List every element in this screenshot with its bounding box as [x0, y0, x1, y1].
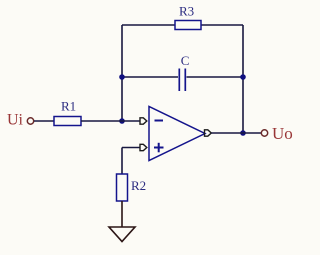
pin: output arrow: [205, 130, 212, 136]
node: junction right-cap: [240, 74, 246, 80]
svg-text:C: C: [181, 53, 190, 68]
wire: capacitor row left: [122, 76, 178, 78]
node: junction right-output: [240, 130, 246, 136]
wire: R2 to ground: [121, 201, 123, 227]
op-amp minus sign: [155, 120, 164, 122]
resistor R1: [54, 117, 81, 126]
wire: input to R1: [34, 120, 54, 122]
svg-text:R1: R1: [61, 99, 76, 114]
resistor R3: [175, 21, 201, 30]
capacitor C: [179, 69, 185, 92]
wire: right output vertical: [242, 25, 244, 133]
ground: [109, 227, 135, 242]
resistor R2: [117, 174, 128, 201]
wire: node to output terminal: [243, 132, 261, 134]
pin: non-inverting input arrow: [140, 144, 147, 150]
wire: output to node: [211, 132, 243, 134]
wire: left feedback vertical: [121, 25, 123, 121]
op-amp plus sign: [154, 143, 164, 153]
wire: capacitor row right: [187, 76, 244, 78]
svg-text:R2: R2: [131, 178, 146, 193]
wire: R1 to inverting pin: [81, 120, 140, 122]
wire: non-inverting vertical down to R2: [121, 148, 123, 175]
node: junction left-cap: [119, 74, 125, 80]
terminal: input port circle: [27, 118, 33, 124]
svg-text:R3: R3: [179, 4, 194, 19]
wire: non-inverting horizontal: [122, 147, 140, 149]
terminal: output port circle: [261, 130, 267, 136]
svg-text:Uo: Uo: [272, 124, 293, 143]
node: junction left-input: [119, 118, 125, 124]
op-amp U1 triangle: [149, 107, 205, 161]
svg-text:Ui: Ui: [7, 112, 24, 129]
wire: top feedback horizontal: [122, 24, 243, 26]
pin: inverting input arrow: [140, 118, 147, 124]
